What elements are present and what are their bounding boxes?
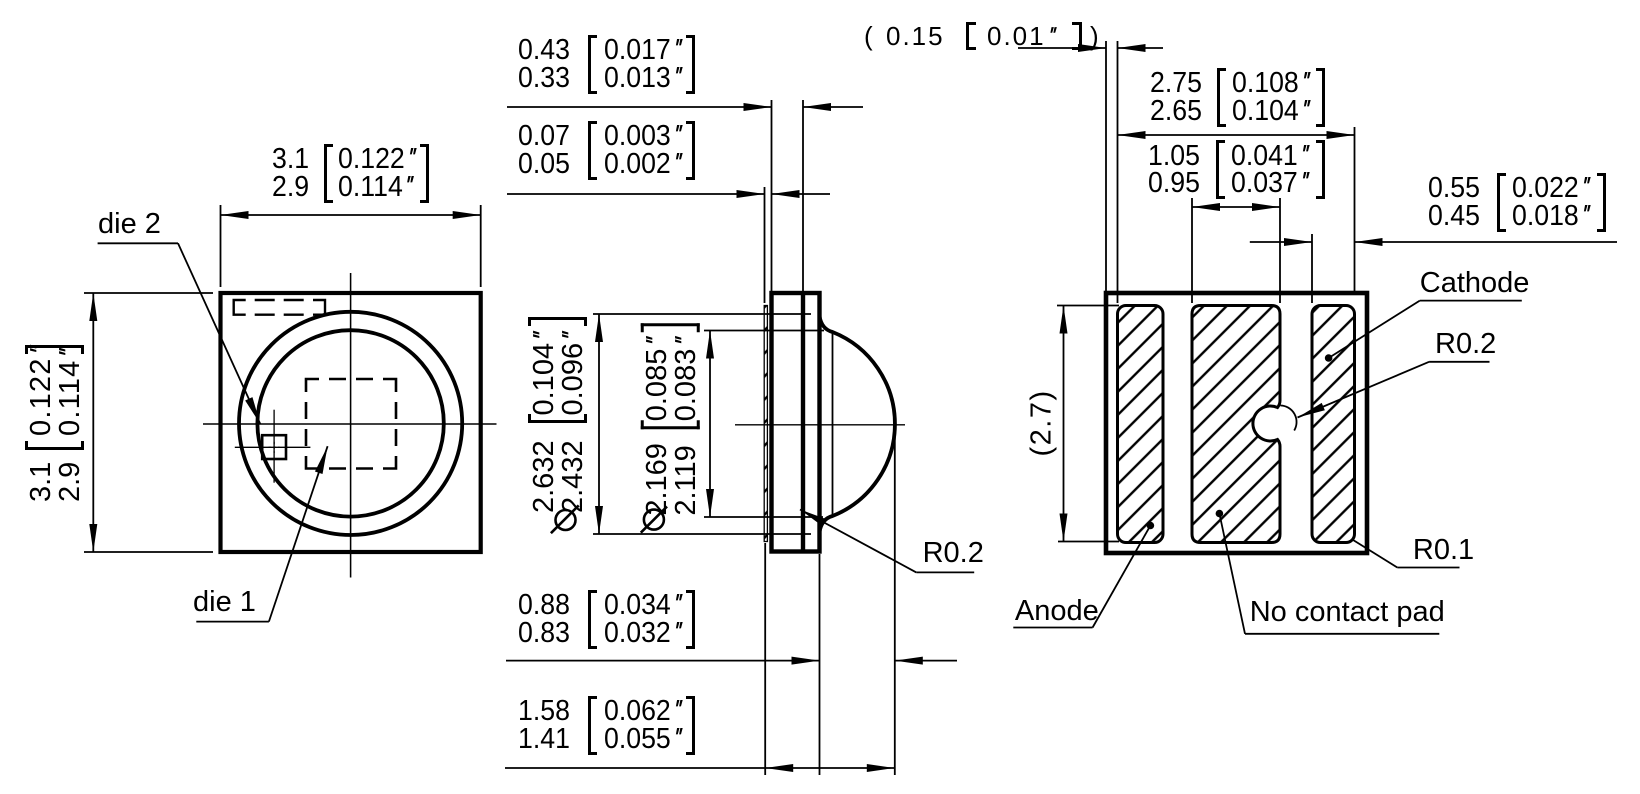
side view centerline <box>735 424 905 426</box>
lens dome profile <box>820 316 895 532</box>
extension lines above bottom view <box>1105 41 1107 291</box>
label die 2 <box>98 211 161 239</box>
No contact pad leader <box>1216 510 1224 518</box>
label No contact pad <box>1250 599 1445 627</box>
dim 0.88/0.83 (bottom) <box>764 543 766 775</box>
substrate strip hatched <box>764 306 767 542</box>
dim 0.07/0.05 <box>764 187 766 303</box>
package outline <box>1106 293 1367 553</box>
dim text (0.15 [0.01"]) <box>864 23 873 49</box>
anode pad (hatched) <box>1118 306 1164 543</box>
dim text 2.75/2.65 <box>1150 70 1202 125</box>
dim text 0.88/0.83 <box>518 592 570 647</box>
phi symbol for dim 2.632 <box>551 505 579 533</box>
dim text 0.55/0.45 <box>1428 175 1480 230</box>
polarity mark dashed rect (top-left) <box>234 300 325 315</box>
label Anode <box>1015 598 1099 626</box>
die 1 leader <box>196 621 269 623</box>
lens outer circle <box>239 312 462 535</box>
package outline square <box>221 293 481 552</box>
center crosshair horizontal <box>203 423 497 425</box>
dim 0.55/0.45 <box>1250 241 1312 243</box>
dim text (2.7) rotated <box>1028 389 1054 456</box>
label die 1 <box>193 589 256 617</box>
dim text 0.07/0.05 <box>518 123 570 178</box>
label R0.2 (bottom view) <box>1435 331 1496 359</box>
Anode leader <box>1147 522 1155 530</box>
phi symbol for dim 2.169 <box>641 507 667 533</box>
notch circle arc <box>1281 406 1297 431</box>
label Cathode <box>1420 270 1530 298</box>
body inner bold line <box>801 293 805 552</box>
label R0.2 (side view) <box>923 540 984 568</box>
dim text 3.1/2.9 left (rotated) <box>24 342 84 502</box>
dim text 1.05/0.95 <box>1148 143 1200 198</box>
R0.2 leader (side view) <box>916 571 974 573</box>
lens base edge line <box>832 332 834 517</box>
Cathode leader <box>1325 354 1333 362</box>
dim text 0.43/0.33 <box>518 37 570 92</box>
die 1 dashed square <box>306 379 396 469</box>
dim phi2.169 vertical <box>704 330 824 332</box>
dim text 3.1/2.9 top <box>272 146 309 201</box>
dim text 1.58/1.41 <box>518 698 570 753</box>
R0.1 leader <box>1352 540 1397 568</box>
dimension 3.1/2.9 horizontal (top) <box>220 205 222 287</box>
dim text phi 2.632/2.432 (rotated) <box>529 312 586 535</box>
package body rect <box>772 293 820 552</box>
dimension 3.1/2.9 vertical (left) <box>84 292 213 294</box>
die 2 crosshair <box>235 446 311 448</box>
dim 1.58/1.41 (bottom) <box>505 767 765 769</box>
R0.2 leader (bottom view) <box>1429 361 1489 363</box>
no-contact pad (hatched, with notch) <box>1192 306 1280 543</box>
lens inner circle <box>257 330 443 516</box>
dim (0.15 [0.01"]) <box>1018 47 1106 49</box>
label R0.1 <box>1413 537 1474 565</box>
dim (2.7) vertical <box>1057 305 1119 307</box>
dim 0.43/0.33 (top) <box>771 100 773 291</box>
dim 2.75/2.65 <box>1118 134 1355 136</box>
dim 1.05/0.95 <box>1192 206 1280 208</box>
center crosshair vertical <box>350 273 352 578</box>
die 2 square <box>262 435 286 459</box>
dim text phi 2.169/2.119 (rotated) <box>641 318 700 534</box>
die 2 leader <box>98 242 178 244</box>
dim phi2.632 vertical <box>593 313 811 315</box>
cathode pad (hatched) <box>1312 306 1355 543</box>
